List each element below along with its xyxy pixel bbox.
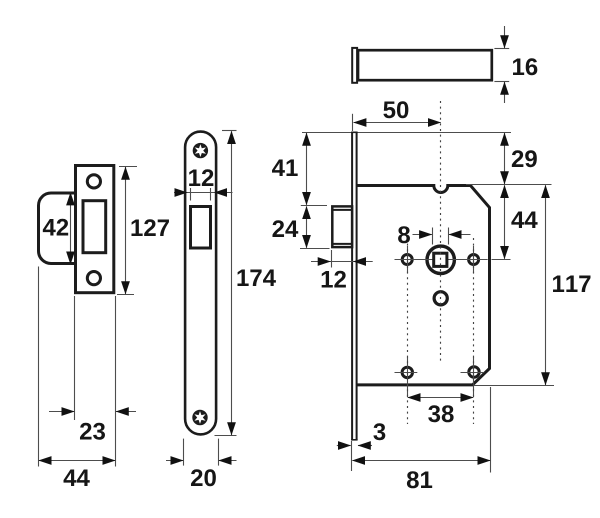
crosshair bottom-right hole (461, 372, 485, 374)
spindle circle (427, 246, 454, 273)
strike plate latch cutout (83, 201, 106, 253)
strike plate top screw hole (87, 175, 100, 188)
strike plate body (76, 166, 114, 293)
lock faceplate edge-on (351, 132, 358, 440)
strike plate bottom screw hole (87, 272, 100, 285)
centerline vertical B (407, 238, 409, 424)
top view lock case bar (358, 50, 492, 80)
dimension 42 (43, 193, 71, 265)
crosshair verticals top hole row (407, 246, 409, 273)
extension line spindle row right (492, 259, 511, 261)
bottom-left hole (402, 367, 412, 377)
bottom-right hole (469, 367, 479, 377)
dimension 127 (117, 167, 169, 295)
dimension 174 (215, 131, 276, 436)
dimension 23 (49, 296, 136, 467)
hole left of spindle (402, 255, 412, 265)
dimension 20 (166, 439, 237, 487)
faceplate front view (185, 132, 216, 435)
faceplate bottom screw (192, 410, 207, 425)
dimension 24 (272, 206, 329, 248)
dimension 16 (494, 26, 537, 103)
dimension 29 (505, 133, 537, 184)
top view faceplate edge (352, 48, 357, 83)
latch bolt (332, 206, 353, 247)
dimension 41 (272, 133, 327, 206)
extension line case top right (466, 184, 552, 186)
hole below spindle (434, 292, 447, 305)
dimension 3 (337, 423, 386, 445)
hole right of spindle (469, 255, 479, 265)
lock case outline (357, 186, 490, 385)
centerline vertical C (473, 238, 475, 424)
dimension 12 latch (311, 250, 373, 288)
dimension 81 (352, 387, 491, 488)
dimension 117 (546, 185, 591, 385)
dimension 8 (398, 226, 470, 244)
dimension 50 (353, 101, 441, 131)
centerline vertical A (440, 101, 442, 363)
centerline horizontal spindle row (395, 259, 488, 261)
strike plate lip (39, 193, 76, 264)
faceplate latch cutout (191, 207, 211, 249)
extension line case bottom right (474, 385, 554, 387)
dimension 44 strike (39, 267, 116, 487)
dimension 12 faceplate (174, 169, 233, 200)
dimension 38 (408, 398, 474, 423)
spindle square (434, 253, 447, 266)
crosshair bottom-left hole (395, 372, 418, 374)
extension line faceplate top (302, 132, 511, 134)
faceplate top screw (193, 143, 208, 158)
dimension 44 lock (505, 185, 538, 258)
